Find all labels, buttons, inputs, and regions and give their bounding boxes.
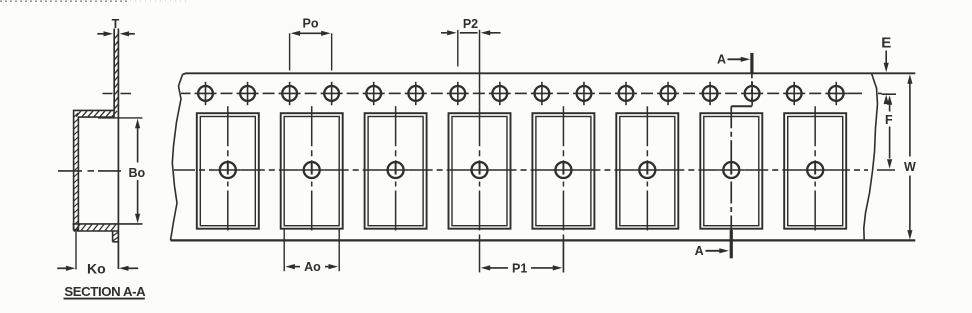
tape bottom edge bbox=[171, 239, 916, 241]
dimension P1 extension lines bbox=[562, 242, 564, 273]
dimension Po line and arrows bbox=[299, 32, 323, 34]
pocket 2 inner rect bbox=[284, 117, 339, 226]
sprocket hole 5 bbox=[363, 82, 385, 105]
pocket 3 center hole bbox=[388, 162, 404, 178]
dimension F line and arrows bbox=[887, 95, 892, 105]
scan noise top edge bbox=[0, 0, 130, 2]
svg-text:A: A bbox=[717, 52, 726, 66]
pocket 6 inner rect bbox=[620, 117, 675, 226]
sprocket hole 1 bbox=[195, 82, 217, 105]
dimension P2 line and arrows bbox=[441, 32, 447, 34]
svg-text:Po: Po bbox=[303, 17, 319, 31]
tape top edge bbox=[183, 73, 916, 74]
pocket 6 outer rect bbox=[616, 113, 678, 229]
pocket 6 center hole bbox=[639, 162, 655, 178]
svg-text:F: F bbox=[885, 113, 893, 127]
svg-text:Bo: Bo bbox=[128, 166, 145, 180]
sprocket hole 14 bbox=[741, 82, 763, 105]
dimension T arrows bbox=[97, 33, 107, 35]
sprocket hole 11 bbox=[615, 82, 637, 105]
section horizontal centerline bbox=[58, 170, 82, 172]
pocket 4 vertical centerline bbox=[479, 30, 481, 107]
svg-text:A: A bbox=[695, 244, 704, 258]
dimension Po extension lines bbox=[289, 33, 291, 70]
dimension Ao line and arrows bbox=[285, 264, 295, 269]
pocket 7 inner rect bbox=[704, 117, 759, 226]
sprocket hole 15 bbox=[783, 82, 805, 105]
dimension Ko extension lines bbox=[75, 232, 77, 270]
dimension Bo line and arrows bbox=[137, 126, 139, 163]
svg-text:W: W bbox=[904, 160, 916, 174]
dimension Ao extension lines bbox=[283, 229, 285, 271]
pocket 5 center hole bbox=[555, 162, 571, 178]
svg-text:Ao: Ao bbox=[304, 260, 321, 274]
tape right break line bbox=[864, 73, 878, 240]
sprocket hole 13 bbox=[699, 82, 721, 105]
dimension E arrows bbox=[885, 51, 887, 64]
sprocket hole 9 bbox=[531, 82, 553, 105]
section pocket bottom flange (hatched) bbox=[73, 224, 143, 231]
pocket 8 vertical centerline bbox=[814, 106, 816, 161]
section cut line through sprocket hole 14 bbox=[751, 73, 753, 106]
pocket 2 center hole bbox=[304, 162, 320, 178]
section cut jog bbox=[731, 105, 752, 107]
pocket 5 inner rect bbox=[536, 117, 591, 226]
section view sprocket-line mark crossing wall bbox=[103, 93, 113, 95]
dimension P2 extension lines bbox=[457, 30, 459, 67]
sprocket hole 6 bbox=[405, 82, 427, 105]
svg-text:P1: P1 bbox=[512, 261, 527, 275]
tape horizontal centerline bbox=[174, 169, 895, 171]
pocket 4 center hole bbox=[472, 162, 488, 178]
pocket 3 inner rect bbox=[368, 117, 423, 226]
tape left break line bbox=[171, 75, 183, 241]
svg-text:E: E bbox=[881, 34, 891, 51]
pocket 2 outer rect bbox=[281, 113, 343, 229]
pocket 1 center hole bbox=[220, 162, 236, 178]
pocket 4 outer rect bbox=[449, 113, 511, 229]
sprocket hole 12 bbox=[657, 82, 679, 105]
pocket 1 inner rect bbox=[200, 117, 255, 226]
section wall bottom stub (hatched) bbox=[113, 231, 119, 242]
dimension W line and arrows bbox=[907, 74, 912, 84]
section cut line A-A lower thick segment bbox=[730, 230, 733, 258]
section cut line A-A upper thick segment bbox=[750, 53, 753, 73]
sprocket hole 10 bbox=[573, 82, 595, 105]
pocket 8 inner rect bbox=[788, 117, 843, 226]
pocket 1 outer rect bbox=[197, 113, 259, 229]
sprocket hole 7 bbox=[447, 82, 469, 105]
svg-text:P2: P2 bbox=[463, 17, 478, 31]
svg-text:Ko: Ko bbox=[87, 260, 106, 276]
section cut / pocket 7 centerline bbox=[730, 106, 732, 161]
pocket 1 vertical centerline bbox=[227, 106, 229, 161]
sprocket hole 2 bbox=[237, 82, 259, 105]
pocket 4 inner rect bbox=[452, 117, 507, 226]
section pocket top flange (hatched) bbox=[74, 110, 117, 229]
pocket 7 outer rect bbox=[700, 113, 762, 229]
pocket 8 outer rect bbox=[784, 113, 846, 229]
pocket 5 outer rect bbox=[532, 113, 594, 229]
pocket 3 vertical centerline bbox=[395, 106, 397, 161]
section view tape wall (thin vertical wall, hatched) bbox=[114, 29, 118, 270]
svg-text:SECTION A-A: SECTION A-A bbox=[64, 284, 146, 299]
pocket 2 vertical centerline bbox=[311, 106, 313, 161]
section pocket left wall hatch bbox=[74, 113, 78, 231]
sprocket row chain line dashes bbox=[181, 92, 882, 94]
svg-text:T: T bbox=[112, 17, 120, 31]
dimension P1 line and arrows bbox=[481, 265, 491, 270]
dimension Ko line and arrows bbox=[57, 267, 66, 269]
sprocket hole 8 bbox=[489, 82, 511, 105]
pocket 8 center hole bbox=[807, 162, 823, 178]
pocket 7 center hole bbox=[723, 162, 739, 178]
sprocket centerline right extension tick (F datum) bbox=[882, 93, 897, 95]
sprocket hole 4 bbox=[321, 82, 343, 105]
sprocket hole 3 bbox=[279, 82, 301, 105]
pocket 5 vertical centerline bbox=[562, 106, 564, 161]
pocket 3 outer rect bbox=[365, 113, 427, 229]
sprocket hole 16 bbox=[825, 82, 847, 105]
dimension Bo extension lines bbox=[98, 117, 143, 119]
pocket 6 vertical centerline bbox=[646, 106, 648, 161]
